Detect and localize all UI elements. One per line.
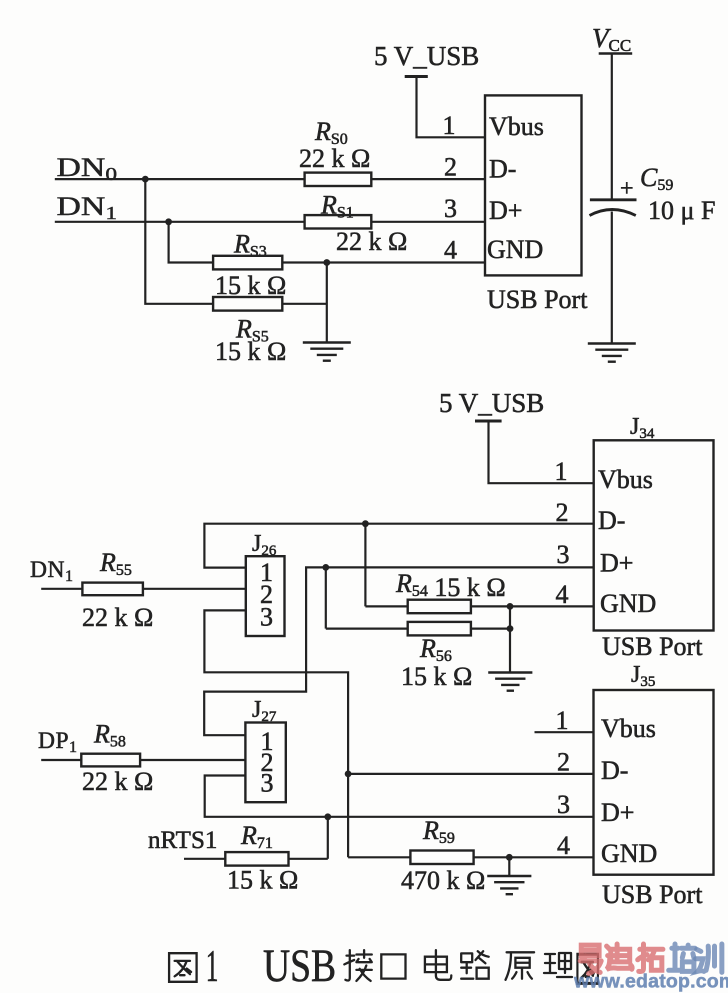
- svg-text:USB: USB: [263, 940, 336, 992]
- svg-text:R54 15 k Ω: R54 15 k Ω: [395, 569, 506, 602]
- svg-text:3: 3: [444, 194, 457, 223]
- svg-text:D+: D+: [489, 196, 522, 225]
- svg-text:USB Port: USB Port: [487, 285, 588, 314]
- svg-text:+: +: [620, 176, 634, 202]
- svg-text:4: 4: [556, 580, 569, 609]
- svg-text:3: 3: [557, 540, 570, 569]
- svg-text:1: 1: [556, 706, 569, 735]
- svg-text:5 V_USB: 5 V_USB: [374, 41, 479, 71]
- svg-text:1: 1: [555, 457, 568, 486]
- svg-text:15 k Ω: 15 k Ω: [401, 662, 472, 691]
- svg-text:5 V_USB: 5 V_USB: [439, 388, 544, 418]
- svg-text:15 k Ω: 15 k Ω: [215, 337, 286, 366]
- svg-text:D-: D-: [489, 155, 516, 184]
- svg-text:2: 2: [444, 153, 457, 182]
- svg-text:4: 4: [444, 236, 457, 265]
- svg-text:15 k Ω: 15 k Ω: [227, 866, 298, 895]
- svg-text:D-: D-: [598, 506, 625, 535]
- svg-text:3: 3: [260, 603, 273, 632]
- svg-text:22 k Ω: 22 k Ω: [336, 227, 407, 256]
- svg-text:1: 1: [206, 941, 219, 992]
- svg-text:Vbus: Vbus: [598, 465, 653, 494]
- svg-text:470 k Ω: 470 k Ω: [401, 866, 485, 895]
- svg-text:Vbus: Vbus: [601, 714, 656, 743]
- svg-text:1: 1: [443, 111, 456, 140]
- svg-text:22 k Ω: 22 k Ω: [82, 767, 153, 796]
- svg-text:GND: GND: [487, 235, 543, 264]
- svg-text:10 μ F: 10 μ F: [648, 196, 715, 225]
- svg-text:2: 2: [556, 498, 569, 527]
- svg-text:15 k Ω: 15 k Ω: [215, 271, 286, 300]
- svg-text:D+: D+: [601, 798, 634, 827]
- svg-text:USB Port: USB Port: [602, 880, 703, 909]
- svg-text:GND: GND: [600, 589, 656, 618]
- svg-text:Vbus: Vbus: [489, 112, 544, 141]
- svg-text:USB Port: USB Port: [602, 632, 703, 661]
- svg-text:nRTS1: nRTS1: [148, 827, 217, 854]
- svg-text:3: 3: [261, 769, 274, 798]
- svg-text:2: 2: [557, 748, 570, 777]
- svg-text:GND: GND: [601, 839, 657, 868]
- svg-text:D-: D-: [601, 756, 628, 785]
- svg-text:22 k Ω: 22 k Ω: [82, 603, 153, 632]
- svg-text:D+: D+: [600, 549, 633, 578]
- svg-text:4: 4: [557, 831, 570, 860]
- svg-text:22 k Ω: 22 k Ω: [299, 144, 370, 173]
- svg-text:www.edatop.com: www.edatop.com: [573, 971, 728, 993]
- svg-text:3: 3: [557, 790, 570, 819]
